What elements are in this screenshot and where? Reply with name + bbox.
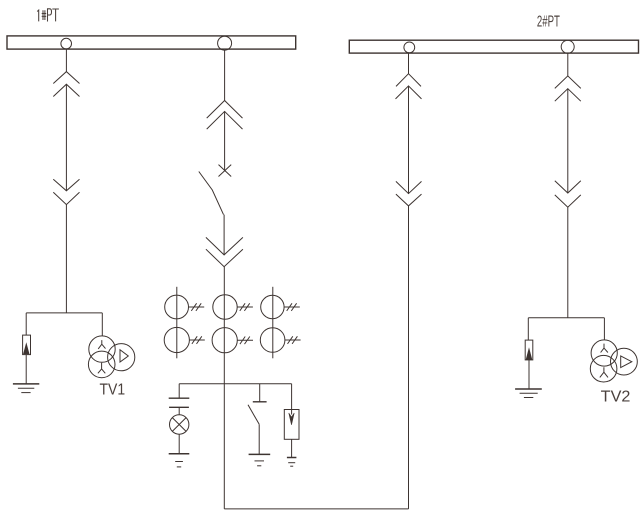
label 1#PT <box>37 9 59 22</box>
busbar 2#PT <box>349 40 638 53</box>
wire branchB below switch <box>223 215 225 255</box>
wire branchA middle <box>65 84 67 191</box>
CT column 3 primary line <box>272 287 274 359</box>
surge arrester F3 body <box>525 340 533 360</box>
plug-in contact chevron up 1 branch D <box>555 76 581 89</box>
plug-in contact chevron up 1 branch B <box>207 101 243 119</box>
wire branchD middle <box>567 89 569 193</box>
wire branchD lower <box>567 207 569 318</box>
TV2 wye symbol top <box>601 344 608 353</box>
plug-in contact chevron down 1 branch A <box>53 179 79 191</box>
wire lamp to ground <box>178 434 180 454</box>
ground under arrester F3 <box>515 388 542 390</box>
svg-text:2#PT: 2#PT <box>537 13 560 30</box>
earthing switch blade <box>248 405 259 425</box>
wire branchB from bus <box>224 50 226 100</box>
voltage transformer TV1 winding 2 <box>88 351 115 378</box>
wire bottom interconnect <box>224 508 408 510</box>
CT3a secondary tap <box>284 303 300 311</box>
svg-text:TV1: TV1 <box>100 382 126 399</box>
wire branchA from bus <box>65 49 67 72</box>
wire drop to TV2 <box>603 318 605 340</box>
TV2 delta symbol <box>621 356 632 368</box>
CT1b secondary tap <box>189 336 204 344</box>
wire drop to arrester F1 <box>25 313 27 335</box>
capacitor plate 1 <box>169 397 190 399</box>
disconnect switch blade (open) <box>199 172 224 215</box>
node circle bus2 tap C <box>404 42 415 53</box>
surge arrester F2 body <box>284 410 299 440</box>
capacitor plate 2 <box>169 406 189 408</box>
TV1 delta symbol <box>120 350 128 362</box>
voltage transformer TV2 winding 1 <box>591 340 617 366</box>
surge arrester F1 arrow <box>23 342 29 354</box>
plug-in contact chevron up 1 branch C <box>396 74 421 87</box>
node circle bus1 tap A <box>61 38 72 49</box>
TV1 wye symbol bottom <box>98 363 105 374</box>
voltage transformer TV2 winding 3 <box>611 348 638 375</box>
wire drop to arrester F3 <box>527 318 529 340</box>
wire arrester F3 to ground <box>528 360 530 389</box>
wire tee horizontal branch D <box>528 317 604 319</box>
ground under lamp <box>169 453 190 455</box>
plug-in contact chevron down 1 branch C <box>396 181 422 193</box>
wire branchC middle <box>408 86 410 194</box>
ground under earthing switch <box>249 453 271 455</box>
voltage transformer TV1 winding 1 <box>89 336 115 362</box>
plug-in contact chevron down 2 branch B <box>206 249 243 267</box>
wire branchC from bus <box>408 53 410 74</box>
CT column 1 primary line <box>176 287 178 359</box>
wire branchA lower <box>65 205 67 313</box>
surge arrester F1 body <box>23 335 31 355</box>
plug-in contact chevron up 1 branch A <box>53 72 79 84</box>
current transformer CT1b <box>164 327 189 352</box>
plug-in contact chevron down 1 branch D <box>555 181 581 193</box>
voltage transformer TV1 winding 3 <box>108 344 135 371</box>
wire branchB to switch <box>224 111 226 170</box>
plug-in contact chevron down 2 branch D <box>555 195 581 207</box>
wire drop to capacitor lamp <box>178 384 180 399</box>
wire tee horizontal branch A <box>26 312 102 314</box>
current transformer CT3a <box>261 295 284 318</box>
plug-in contact chevron down 2 branch C <box>396 194 422 206</box>
TV1 wye symbol top <box>98 340 105 349</box>
wire branchC to bottom interconnect <box>408 206 410 509</box>
node circle bus1 tap B <box>218 36 232 50</box>
current transformer CT2b <box>212 328 237 353</box>
busbar 1#PT <box>7 36 296 49</box>
wire drop to arrester F2 <box>291 384 293 410</box>
current transformer CT3b <box>260 328 285 353</box>
wire branchD from bus <box>567 53 569 76</box>
plug-in contact chevron up 2 branch D <box>555 89 581 102</box>
CT2a secondary tap <box>237 303 253 311</box>
wire capacitor to lamp <box>178 407 180 415</box>
plug-in contact chevron up 2 branch A <box>53 84 79 96</box>
wire arrester F2 to ground <box>291 439 293 457</box>
wire stub earthing switch <box>259 384 261 402</box>
wire drop to TV1 <box>101 313 103 336</box>
plug-in contact chevron up 2 branch C <box>396 86 422 99</box>
node circle bus2 tap D <box>561 40 574 53</box>
wire horizontal secondary bus <box>179 383 291 385</box>
ground under arrester F1 <box>13 383 39 385</box>
CT3b secondary tap <box>285 336 301 344</box>
wire arrester F1 to ground <box>25 355 27 384</box>
CT2b secondary tap <box>237 337 253 345</box>
indicator lamp <box>170 415 189 434</box>
earthing switch fixed contact bar <box>253 401 267 403</box>
voltage transformer TV2 winding 2 <box>590 355 617 382</box>
ground under arrester F2 <box>287 457 297 459</box>
current transformer CT1a <box>165 295 189 319</box>
surge arrester F2 arrow <box>291 410 293 415</box>
surge arrester F3 arrow <box>526 347 532 359</box>
plug-in contact chevron down 2 branch A <box>53 192 79 204</box>
CT1a secondary tap <box>189 303 205 311</box>
svg-text:TV2: TV2 <box>601 389 631 406</box>
plug-in contact chevron up 2 branch B <box>207 111 243 129</box>
disconnect switch fixed contact X <box>219 165 232 177</box>
current transformer CT2a <box>213 295 237 319</box>
wire earthing switch to ground <box>258 424 260 454</box>
plug-in contact chevron down 1 branch B <box>206 237 243 255</box>
wire branchB main lower <box>223 267 225 509</box>
TV2 wye symbol bottom <box>600 367 608 377</box>
